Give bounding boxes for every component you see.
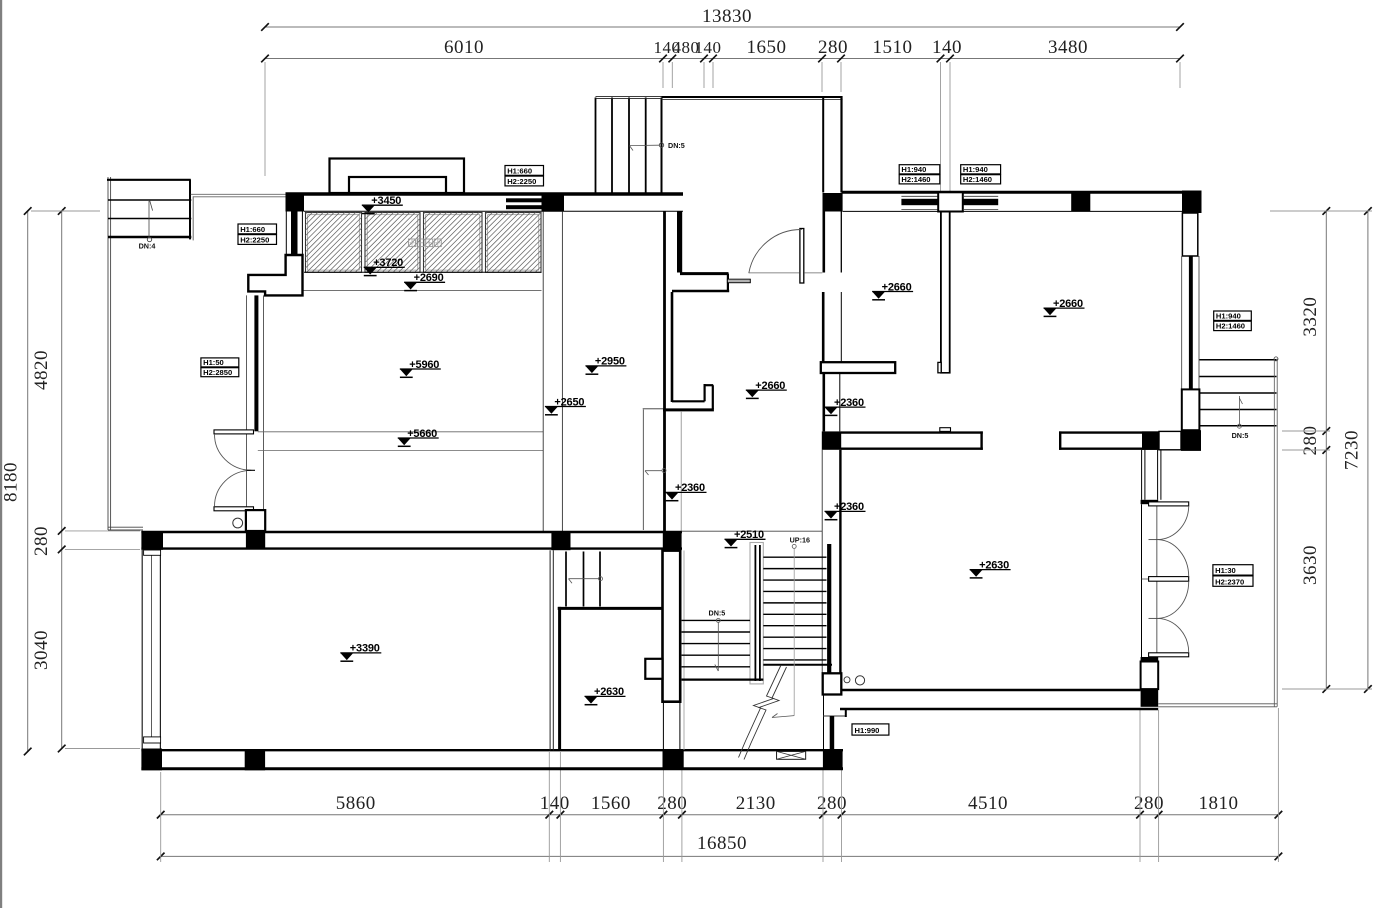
stair down flight treads xyxy=(682,619,750,621)
svg-text:+2650: +2650 xyxy=(554,396,584,408)
porch corner wall xyxy=(845,710,847,717)
svg-text:+2630: +2630 xyxy=(979,559,1009,571)
party wall mid xyxy=(822,292,825,363)
door frame jamb line xyxy=(263,295,265,510)
svg-text:6010: 6010 xyxy=(444,37,484,58)
stair up rail xyxy=(827,544,831,673)
closet door meeting dashes xyxy=(1149,539,1160,541)
svg-text:+2660: +2660 xyxy=(1053,298,1083,310)
svg-text:140: 140 xyxy=(695,38,722,57)
svg-text:3320: 3320 xyxy=(1300,297,1321,337)
circle symbol near door xyxy=(233,518,243,528)
level +2630 small room xyxy=(585,695,626,697)
label box H1:30 xyxy=(1213,565,1253,575)
svg-text:+2360: +2360 xyxy=(834,397,864,409)
partition kitchen xyxy=(940,212,942,374)
canvas left edge strip xyxy=(0,0,2,908)
small room walls xyxy=(558,607,663,610)
wall stub above column xyxy=(246,510,265,531)
column bottom right room xyxy=(1141,689,1159,707)
wall bath south jog xyxy=(672,400,705,402)
stair right arrow xyxy=(1238,396,1240,426)
dimension top extension lines xyxy=(264,62,266,176)
svg-text:280: 280 xyxy=(657,793,687,814)
stair center divider xyxy=(750,543,763,684)
svg-text:DN:4: DN:4 xyxy=(139,242,156,251)
dimension left extension lines xyxy=(31,210,100,212)
dimension left chain xyxy=(61,211,63,749)
svg-text:3480: 3480 xyxy=(1048,37,1088,58)
small room east thick wall xyxy=(663,551,681,702)
wall bottom of right room xyxy=(842,689,1141,692)
svg-text:H1:50: H1:50 xyxy=(203,358,224,367)
closet wall bottom stub xyxy=(1141,657,1159,662)
right wall window xyxy=(1181,256,1183,389)
stair top-left DN:4 xyxy=(107,179,191,181)
wall top of right block xyxy=(842,191,1202,194)
patio boundary xyxy=(1158,703,1277,705)
svg-text:+2950: +2950 xyxy=(595,356,625,368)
double door left room upper leaf xyxy=(214,430,254,434)
wall living/dining partition xyxy=(542,212,544,532)
vent box with X xyxy=(777,751,806,759)
post between windows xyxy=(938,192,963,211)
svg-text:+2660: +2660 xyxy=(755,380,785,392)
glazing band lower lines xyxy=(304,271,542,273)
column top-left A xyxy=(286,193,305,212)
label box H1:940 window1 xyxy=(899,165,940,174)
columns in bottom band xyxy=(141,749,162,771)
level +2360 right upper xyxy=(825,406,866,408)
wall bath east xyxy=(671,292,674,402)
dimension bottom extension lines xyxy=(160,772,162,862)
stub below stairwell xyxy=(823,673,842,694)
wall band bottom (garage south) xyxy=(141,749,843,751)
wall jog entry xyxy=(680,272,729,275)
right wall upper white segment xyxy=(1182,213,1197,256)
column mid band xyxy=(1142,431,1159,449)
svg-text:280: 280 xyxy=(817,793,847,814)
svg-text:DN:5: DN:5 xyxy=(1232,431,1249,440)
closet door leaf 2 xyxy=(1149,577,1189,582)
wall left of living room xyxy=(254,295,258,431)
level +5960 xyxy=(400,368,441,370)
stair top-left arrow xyxy=(148,200,150,238)
stairwell top edge xyxy=(682,530,823,532)
svg-text:H1:940: H1:940 xyxy=(963,165,988,174)
svg-text:16850: 16850 xyxy=(697,833,747,854)
level +3720 xyxy=(364,266,405,268)
svg-text:280: 280 xyxy=(1134,793,1164,814)
svg-text:+3720: +3720 xyxy=(373,257,403,269)
svg-text:3040: 3040 xyxy=(31,630,52,670)
wall mid band right part xyxy=(1059,431,1201,433)
svg-text:H2:2850: H2:2850 xyxy=(203,368,232,377)
dimension bottom overall 16850 xyxy=(161,855,1279,857)
bath inner gray line xyxy=(680,411,682,531)
party wall upper xyxy=(822,212,825,273)
stair upper arrow DN:5 xyxy=(630,144,660,146)
window wall garage west xyxy=(141,550,143,749)
svg-text:1510: 1510 xyxy=(873,37,913,58)
level +2950 xyxy=(585,365,626,367)
svg-text:+2360: +2360 xyxy=(834,501,864,513)
wall below small room east xyxy=(662,702,664,751)
wall corner L-shape left room xyxy=(248,255,302,295)
closet wall lines xyxy=(1141,504,1143,657)
stair upper top edge xyxy=(596,95,662,97)
svg-text:H1:660: H1:660 xyxy=(240,225,265,234)
column party wall bottom xyxy=(823,751,843,769)
column party wall top xyxy=(823,193,843,212)
level +5660 xyxy=(398,437,439,439)
dimension right overall 7230 xyxy=(1367,211,1369,689)
dimension top chain line xyxy=(265,58,1180,60)
window right block 1 xyxy=(901,195,938,197)
wall top of left block xyxy=(286,192,684,195)
svg-text:5860: 5860 xyxy=(336,793,376,814)
svg-text:H2:1460: H2:1460 xyxy=(1216,322,1245,331)
closet door arcs 2 xyxy=(1158,540,1189,577)
party wall below divider xyxy=(822,373,825,431)
svg-text:13830: 13830 xyxy=(702,6,752,27)
svg-text:H2:2370: H2:2370 xyxy=(1215,577,1244,586)
svg-text:4820: 4820 xyxy=(31,350,52,390)
balcony roof edge xyxy=(662,96,843,98)
stair three steps xyxy=(565,552,567,607)
stair right DN:5 treads xyxy=(1199,359,1276,361)
level +3450 xyxy=(362,204,403,206)
stairwell west gray line xyxy=(683,551,685,751)
svg-text:+5660: +5660 xyxy=(407,428,437,440)
stair upper DN:5 treads xyxy=(595,98,597,193)
label box H1:660 left xyxy=(238,224,277,234)
label box H1:940 right xyxy=(1214,311,1252,320)
level +2630 right room xyxy=(970,569,1011,571)
wall corridor west xyxy=(663,212,666,532)
level +2660 entry xyxy=(746,389,787,391)
svg-text:H1:940: H1:940 xyxy=(1216,312,1241,321)
window right block 2 xyxy=(963,195,998,197)
svg-text:1810: 1810 xyxy=(1199,793,1239,814)
svg-text:UP:16: UP:16 xyxy=(790,535,810,544)
dimension right extension lines xyxy=(1270,210,1372,212)
wall link stair to block xyxy=(191,193,286,195)
svg-text:+3390: +3390 xyxy=(350,643,380,655)
closet door arc 3 xyxy=(1158,618,1189,652)
level +2510 xyxy=(725,538,766,540)
column party wall mid xyxy=(822,431,841,449)
canopy label glyphs xyxy=(409,239,416,247)
entry door arc xyxy=(749,229,802,273)
columns in mid band xyxy=(141,531,163,550)
party wall stairwell east xyxy=(821,450,823,674)
svg-text:7230: 7230 xyxy=(1342,430,1363,470)
svg-text:H2:2250: H2:2250 xyxy=(507,177,536,186)
column top-right corner xyxy=(1182,191,1202,214)
opening H1:990 wall xyxy=(823,695,825,751)
svg-text:H2:2250: H2:2250 xyxy=(240,236,269,245)
svg-text:1650: 1650 xyxy=(747,37,787,58)
stair up flight treads xyxy=(763,556,826,558)
wall mid band left part xyxy=(841,431,983,433)
bath door line xyxy=(643,408,663,410)
svg-text:DN:5: DN:5 xyxy=(668,141,685,150)
svg-text:+2630: +2630 xyxy=(594,686,624,698)
svg-text:4510: 4510 xyxy=(968,793,1008,814)
svg-text:140: 140 xyxy=(932,37,962,58)
svg-text:280: 280 xyxy=(1300,426,1321,456)
svg-text:+5960: +5960 xyxy=(409,359,439,371)
svg-text:+2660: +2660 xyxy=(882,281,912,293)
closet door leaf 3 xyxy=(1149,653,1189,657)
svg-text:3630: 3630 xyxy=(1300,545,1321,585)
closet door leaf 1 xyxy=(1149,502,1189,506)
door stopper circles xyxy=(844,677,850,683)
window segment in top wall xyxy=(506,198,542,202)
svg-text:1560: 1560 xyxy=(591,793,631,814)
wall corridor east upper xyxy=(677,212,682,273)
svg-text:2130: 2130 xyxy=(736,793,776,814)
column top B xyxy=(542,193,565,212)
svg-text:+3450: +3450 xyxy=(371,195,401,207)
closet corridor walls xyxy=(1141,450,1143,500)
svg-text:H1:660: H1:660 xyxy=(507,166,532,175)
stair break line xyxy=(739,665,782,758)
svg-text:+2690: +2690 xyxy=(414,272,444,284)
right wall landing xyxy=(1182,389,1200,430)
closet above top wall xyxy=(330,159,465,194)
svg-text:H2:1460: H2:1460 xyxy=(963,175,992,184)
double door arcs xyxy=(214,434,251,470)
svg-text:H1:30: H1:30 xyxy=(1215,566,1236,575)
balcony east wall xyxy=(822,98,824,193)
svg-text:H1:940: H1:940 xyxy=(901,165,926,174)
level +2650 xyxy=(545,406,586,408)
level +2660 bed two xyxy=(1044,307,1085,309)
label box H1:660 top xyxy=(505,166,544,176)
room divider wall right of party wall xyxy=(821,362,895,373)
level +2660 bed one xyxy=(872,291,913,293)
level +2360 bath xyxy=(666,491,707,493)
label box H1:940 window2 xyxy=(961,165,1001,174)
column right wall xyxy=(1181,430,1201,451)
svg-text:+2360: +2360 xyxy=(675,482,705,494)
outer boundary left terrace xyxy=(107,177,109,530)
svg-text:8180: 8180 xyxy=(1,462,22,502)
svg-text:+2510: +2510 xyxy=(734,529,764,541)
wall pier below column A xyxy=(291,212,298,256)
wall band mid (garage top) xyxy=(141,531,682,533)
level +2690 xyxy=(404,281,445,283)
level +2360 right lower xyxy=(825,510,866,512)
entry step xyxy=(727,279,750,283)
entry threshold xyxy=(749,272,799,274)
wall garage east xyxy=(549,550,551,750)
entry door leaf xyxy=(800,229,804,284)
svg-text:280: 280 xyxy=(818,37,848,58)
svg-text:280: 280 xyxy=(31,526,52,556)
svg-text:DN:5: DN:5 xyxy=(709,609,726,618)
svg-text:140: 140 xyxy=(540,793,570,814)
double door left room lower leaf xyxy=(214,507,254,511)
closet door arc 1 xyxy=(1158,506,1189,540)
column top-right mid xyxy=(1071,193,1090,211)
dimension top overall 13830 xyxy=(265,26,1180,28)
dimension right chain 3320/280/3630 xyxy=(1325,211,1327,689)
level +3390 xyxy=(340,652,381,654)
niche in small room wall xyxy=(645,659,662,679)
dimension bottom chain line xyxy=(161,814,1279,816)
label box H1:50 xyxy=(201,358,239,367)
dimension left overall 8180 xyxy=(27,211,29,752)
beam lines across living room xyxy=(258,431,543,433)
label box H1:990 xyxy=(852,724,889,735)
svg-text:H2:1460: H2:1460 xyxy=(901,175,930,184)
svg-text:H1:990: H1:990 xyxy=(855,726,880,735)
